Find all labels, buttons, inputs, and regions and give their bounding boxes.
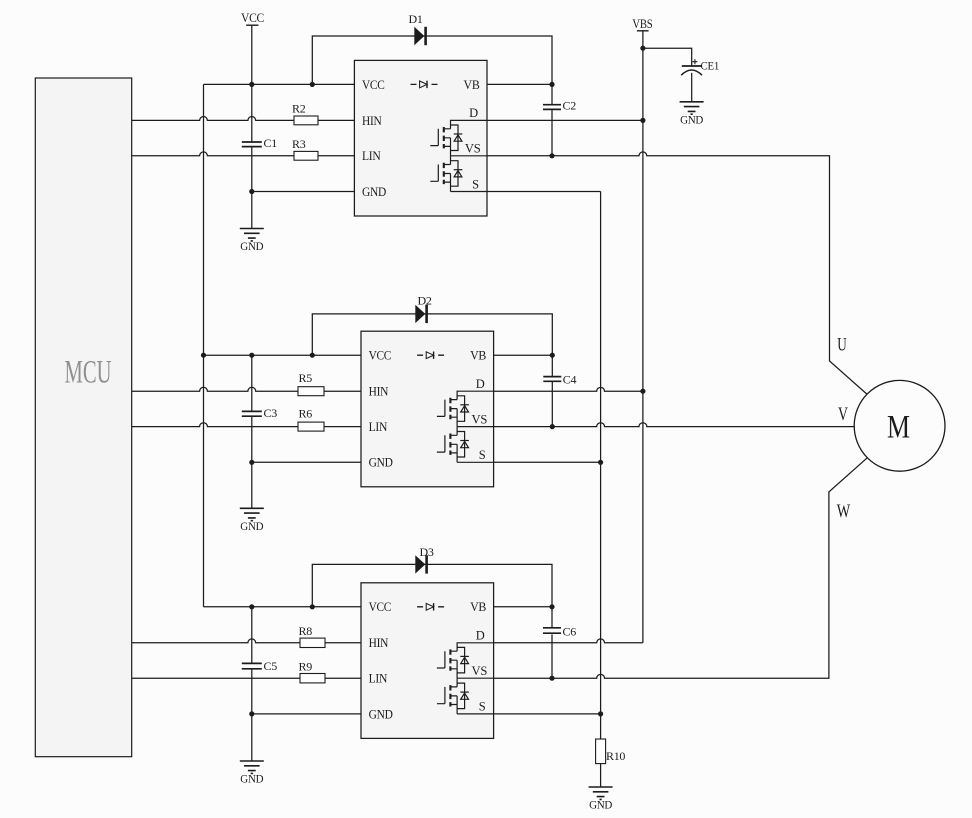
wire: LIN3 from MCU through R9 [132, 677, 361, 679]
svg-text:HIN: HIN [362, 114, 382, 128]
wire: R10 to ground [600, 764, 602, 787]
svg-text:VCC: VCC [241, 11, 264, 25]
wire: S1 down to shunt bus [487, 191, 601, 193]
svg-text:VB: VB [470, 349, 486, 363]
svg-text:VCC: VCC [362, 78, 385, 92]
wire: VCC terminal drop (lower, below C1) [251, 147, 253, 228]
diode D3 [415, 545, 434, 574]
svg-text:C6: C6 [563, 625, 577, 639]
node: D3 anode branch junction [310, 604, 315, 609]
svg-text:GND: GND [240, 519, 264, 533]
node: VCC terminal junction [249, 82, 254, 87]
svg-text:D2: D2 [418, 294, 432, 308]
wire: C5 to ground [251, 714, 253, 761]
IC2 low-side MOSFET Q2b [437, 427, 494, 463]
wire: bus to R10 [600, 738, 602, 740]
IC1 high-side MOSFET Q1a [430, 120, 487, 155]
ground GND-CE1 [680, 102, 704, 127]
wire: C3 to ground [251, 462, 253, 508]
wire: CE1 branch [643, 48, 692, 66]
resistor R3 [292, 137, 318, 160]
diode D2 [415, 294, 432, 324]
wire: LIN1 from MCU through R3 [132, 152, 355, 156]
node: GND2 junction [249, 460, 254, 465]
node: VBS/CE1 junction [640, 46, 645, 51]
node: D1 anode branch junction [310, 82, 315, 87]
svg-text:VCC: VCC [369, 600, 392, 614]
wire: D1 bootstrap branch [312, 36, 552, 84]
wire: C3 column upper [251, 355, 253, 411]
IC1 internal diode glyph [411, 81, 438, 88]
svg-text:D: D [476, 628, 485, 642]
wire: VCC2 rail to IC2 [204, 354, 362, 356]
node: VS1/C2 junction [549, 153, 554, 158]
svg-text:HIN: HIN [369, 636, 389, 650]
gate driver IC1 box [354, 60, 487, 216]
wire: VB2 to C4 [494, 354, 553, 356]
svg-text:VS: VS [465, 142, 481, 156]
capacitor C5 [242, 659, 277, 673]
node: VB3/C6 junction [549, 604, 554, 609]
IC2 high-side MOSFET Q2a [437, 391, 494, 426]
svg-text:R9: R9 [299, 660, 313, 674]
svg-text:R6: R6 [299, 407, 313, 421]
svg-text:VCC: VCC [369, 349, 392, 363]
resistor R6 [298, 407, 324, 432]
diode D1 [409, 12, 426, 45]
svg-text:GND: GND [680, 112, 704, 126]
svg-text:LIN: LIN [362, 149, 381, 163]
wire: VCC terminal drop (upper) [251, 25, 253, 142]
node: S3/bus junction [598, 711, 603, 716]
svg-text:LIN: LIN [369, 672, 388, 686]
wire: HIN3 from MCU through R8 [132, 639, 361, 643]
svg-text:GND: GND [589, 798, 613, 812]
wire: HIN1 from MCU through R2 [132, 117, 355, 121]
svg-text:D1: D1 [409, 12, 423, 26]
svg-text:VS: VS [472, 412, 488, 426]
wire: HIN2 from MCU through R5 [132, 387, 361, 391]
wire: C5 column lower [251, 669, 253, 714]
wire: D pin IC1 to DC bus [487, 119, 643, 121]
svg-text:GND: GND [240, 772, 264, 786]
svg-text:U: U [837, 335, 847, 356]
IC3 low-side MOSFET Q3b [437, 678, 494, 714]
capacitor C3 [242, 406, 277, 420]
resistor R9 [299, 660, 326, 683]
svg-text:CE1: CE1 [701, 59, 720, 73]
svg-text:D: D [476, 377, 485, 391]
ground GND1 [240, 229, 264, 254]
svg-text:C5: C5 [264, 659, 278, 673]
node: VB2/C4 junction [550, 353, 555, 358]
svg-text:R3: R3 [292, 137, 306, 151]
wire: GND1 line to IC1 [252, 191, 355, 193]
svg-text:GND: GND [240, 239, 264, 253]
ground GND3 [240, 761, 264, 786]
svg-text:R8: R8 [299, 624, 313, 638]
svg-text:VBS: VBS [632, 17, 652, 31]
node: bus/VCC2 junction [201, 353, 206, 358]
svg-text:S: S [479, 448, 486, 462]
svg-text:VB: VB [464, 78, 480, 92]
resistor R5 [298, 371, 324, 396]
motor M [854, 380, 945, 471]
wire: DC bus (vertical x=642.9) [642, 31, 644, 643]
capacitor C6 [543, 625, 576, 639]
IC1 low-side MOSFET Q1b [430, 156, 487, 192]
wire: S2 to shunt bus [494, 461, 601, 463]
gate driver IC2 box [361, 331, 494, 487]
IC3 high-side MOSFET Q3a [437, 643, 494, 678]
capacitor C2 [543, 99, 576, 113]
ground GND-R10 [589, 787, 613, 812]
svg-text:GND: GND [362, 185, 386, 199]
wire: VCC distribution bus (vertical x=203.5) [203, 84, 205, 606]
svg-text:VB: VB [470, 600, 486, 614]
resistor R2 [292, 102, 318, 125]
wire: C2 column [551, 84, 553, 104]
node: C5 top junction [249, 604, 254, 609]
MCU block [35, 78, 131, 757]
svg-text:D3: D3 [420, 545, 434, 559]
svg-text:S: S [472, 177, 479, 191]
wire: shunt bus (vertical x=600.6) [600, 192, 602, 740]
wire: LIN2 from MCU through R6 [132, 423, 361, 427]
svg-text:MCU: MCU [65, 355, 112, 391]
svg-text:V: V [838, 404, 848, 425]
node: D2-pin/bus junction [640, 389, 645, 394]
node: GND1 junction [249, 189, 254, 194]
wire: GND3 line to IC3 [252, 713, 361, 715]
wire: VS2 / phase V to motor [494, 423, 855, 427]
node: D2 anode branch junction [310, 353, 315, 358]
node: VB1/C2 junction [549, 82, 554, 87]
node: C3 top junction [249, 353, 254, 358]
resistor R8 [299, 624, 326, 648]
node: VS3/C6 junction [549, 676, 554, 681]
node: D1-pin/bus junction [640, 118, 645, 123]
capacitor CE1 (electrolytic) [681, 59, 719, 76]
svg-text:W: W [837, 501, 851, 522]
svg-text:GND: GND [369, 456, 393, 470]
resistor R10 (vertical) [596, 739, 626, 764]
IC2 internal diode glyph [417, 352, 444, 359]
svg-text:R2: R2 [292, 102, 306, 116]
svg-text:C4: C4 [563, 373, 577, 387]
svg-text:VS: VS [472, 664, 488, 678]
VCC power terminal [241, 11, 264, 25]
wire: GND2 line to IC2 [252, 461, 361, 463]
svg-text:D: D [469, 106, 478, 120]
svg-text:R5: R5 [299, 371, 313, 385]
wire: C5 column upper [251, 607, 253, 664]
wire: D pin IC3 to DC bus [494, 639, 643, 643]
wire: C6 column [551, 607, 553, 628]
svg-text:C1: C1 [264, 136, 278, 150]
wire: D2 bootstrap branch [312, 314, 552, 355]
VBS power terminal [632, 17, 652, 31]
wire: S3 to shunt bus [494, 713, 601, 715]
svg-text:GND: GND [369, 707, 393, 721]
wire: C4 column [551, 355, 553, 376]
ground GND2 [240, 508, 264, 533]
wire: C3 column lower [251, 417, 253, 462]
svg-text:HIN: HIN [369, 385, 389, 399]
svg-text:M: M [887, 410, 910, 446]
capacitor C1 [242, 136, 277, 150]
wire: D pin IC2 to DC bus [494, 387, 643, 391]
node: GND3 junction [249, 711, 254, 716]
gate driver IC3 box [361, 583, 494, 739]
svg-text:LIN: LIN [369, 420, 388, 434]
wire: VB3 to C6 [494, 606, 552, 608]
wire: D3 bootstrap branch [312, 564, 552, 606]
IC3 internal diode glyph [417, 603, 444, 610]
svg-text:R10: R10 [606, 749, 625, 763]
wire: VS1 / phase U to motor [487, 152, 867, 395]
wire: VB1 to C2 [487, 83, 552, 85]
svg-text:S: S [479, 700, 486, 714]
capacitor C4 [543, 373, 576, 387]
wire: VS3 / phase W to motor [494, 458, 868, 679]
svg-text:C3: C3 [264, 406, 278, 420]
node: VS2/C4 junction [550, 424, 555, 429]
svg-text:C2: C2 [563, 99, 577, 113]
wire: VCC1 rail to IC1 [204, 83, 355, 85]
wire: VCC3 rail to IC3 [204, 606, 362, 608]
node: S2/bus junction [598, 460, 603, 465]
